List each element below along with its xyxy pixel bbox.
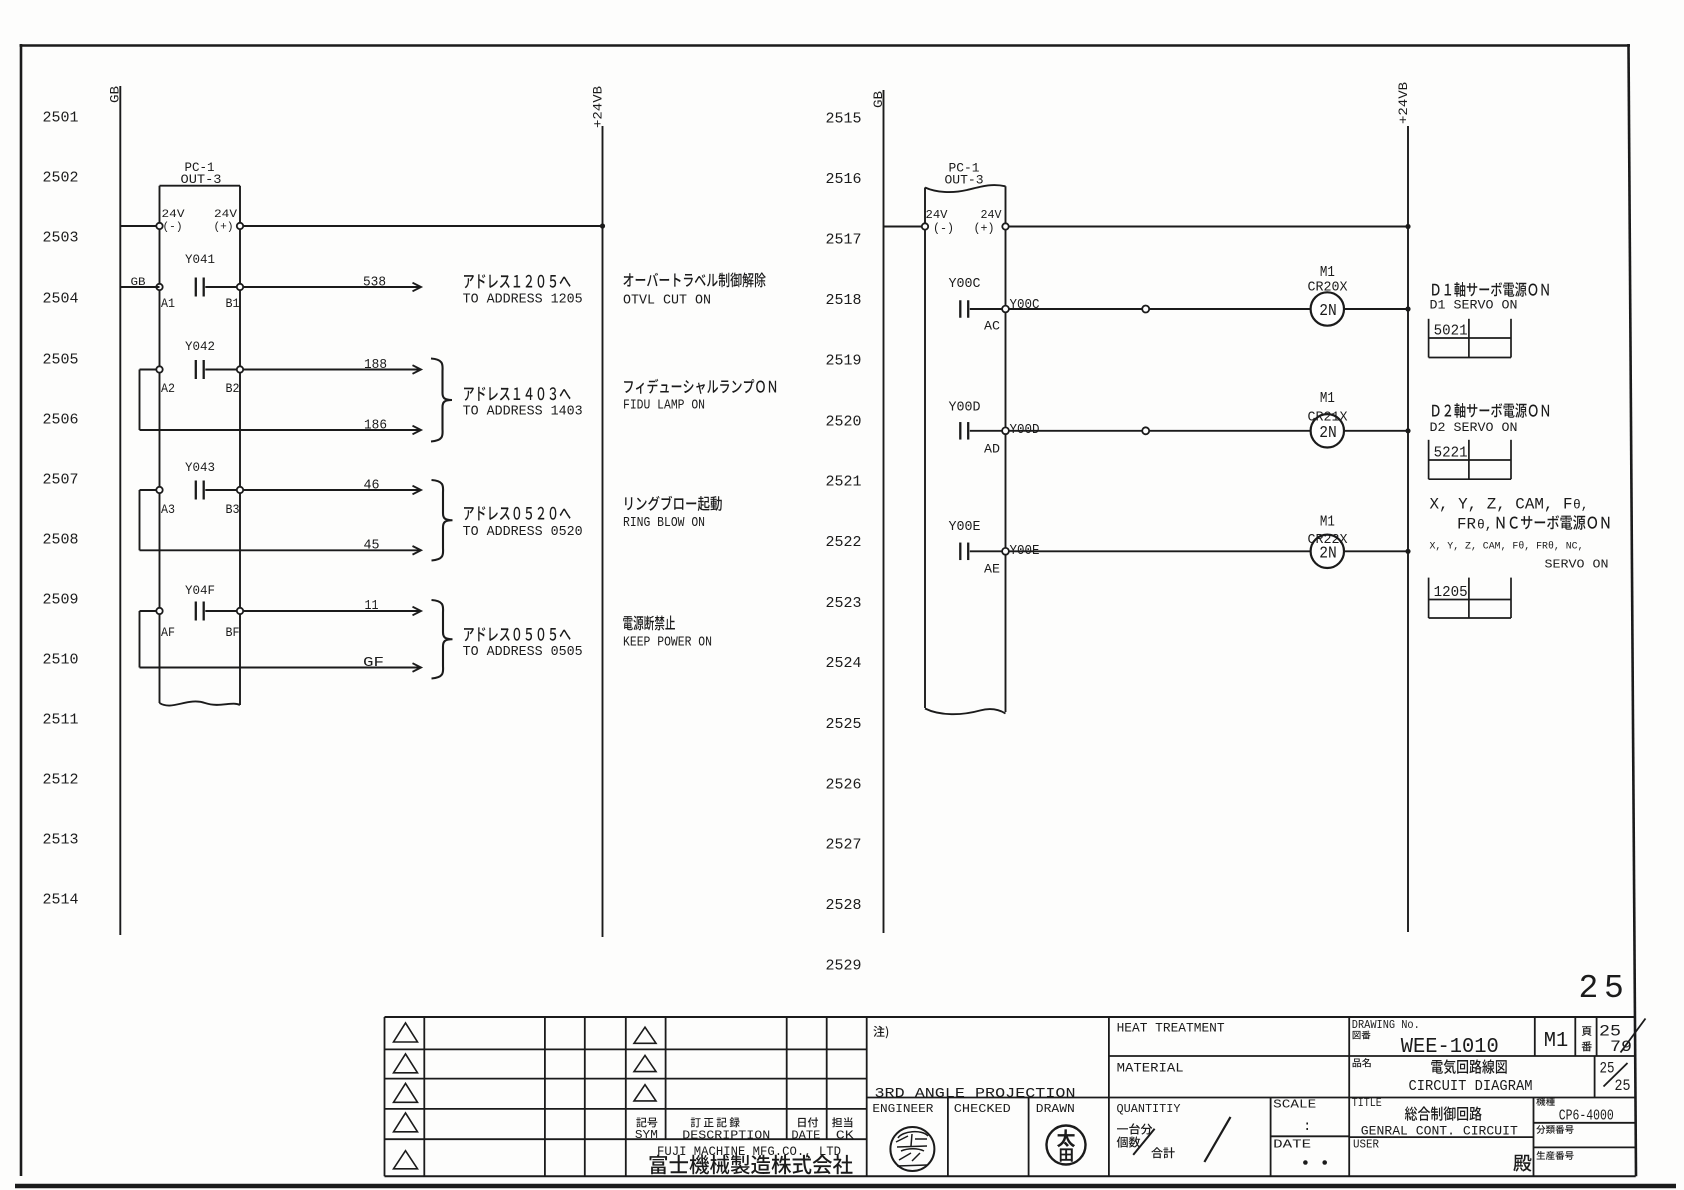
svg-text:2506: 2506: [43, 412, 79, 429]
svg-text:+24VB: +24VB: [1396, 82, 1411, 124]
svg-text:2507: 2507: [43, 472, 79, 489]
svg-text:GB: GB: [131, 277, 146, 289]
svg-text:2518: 2518: [826, 292, 862, 309]
svg-text:Y00C: Y00C: [949, 276, 981, 292]
svg-text:DATE: DATE: [1273, 1138, 1311, 1152]
svg-text:3RD ANGLE PROJECTION: 3RD ANGLE PROJECTION: [875, 1087, 1076, 1102]
svg-text:2512: 2512: [43, 772, 79, 789]
svg-text:A1: A1: [161, 296, 175, 311]
svg-text:2529: 2529: [826, 958, 862, 975]
svg-text:A2: A2: [161, 381, 175, 396]
svg-text:1205: 1205: [1434, 584, 1468, 601]
svg-text:AE: AE: [984, 562, 1000, 577]
svg-text:Y00E: Y00E: [949, 519, 981, 535]
svg-text:OUT-3: OUT-3: [945, 173, 984, 188]
svg-text:GB: GB: [871, 91, 886, 108]
svg-text:2511: 2511: [43, 712, 79, 729]
svg-text:Y00C: Y00C: [1010, 297, 1040, 313]
svg-text:24V: 24V: [981, 208, 1003, 222]
svg-text:2523: 2523: [826, 595, 862, 612]
svg-text:TO ADDRESS 1403: TO ADDRESS 1403: [463, 404, 583, 420]
svg-text:BF: BF: [226, 625, 240, 640]
svg-text:2527: 2527: [826, 837, 862, 854]
svg-text:SYM: SYM: [635, 1129, 658, 1142]
svg-text:46: 46: [364, 477, 380, 493]
svg-text:2502: 2502: [43, 170, 79, 187]
svg-text:B3: B3: [226, 502, 240, 517]
svg-text:OTVL CUT ON: OTVL CUT ON: [623, 293, 711, 309]
svg-text:KEEP POWER ON: KEEP POWER ON: [623, 635, 712, 651]
svg-text:M1: M1: [1320, 514, 1335, 531]
svg-text:2504: 2504: [43, 291, 79, 308]
svg-text:DESCRIPTION: DESCRIPTION: [682, 1130, 770, 1143]
svg-text:2528: 2528: [826, 897, 862, 914]
svg-text:2526: 2526: [826, 776, 862, 793]
svg-text:2503: 2503: [43, 230, 79, 247]
svg-text:CK: CK: [836, 1130, 854, 1143]
svg-text:186: 186: [364, 418, 387, 434]
svg-text:CR22X: CR22X: [1308, 532, 1349, 548]
svg-text:TO ADDRESS 0505: TO ADDRESS 0505: [463, 644, 583, 660]
svg-text:TO ADDRESS 0520: TO ADDRESS 0520: [463, 524, 583, 540]
svg-text:5021: 5021: [1434, 323, 1468, 340]
svg-text:M1: M1: [1320, 264, 1335, 281]
svg-text:AD: AD: [984, 442, 1000, 457]
svg-text:X, Y, Z, CAM, F: X, Y, Z, CAM, F: [1430, 496, 1573, 514]
svg-text:RING BLOW ON: RING BLOW ON: [623, 515, 705, 531]
svg-text:B2: B2: [226, 381, 240, 396]
svg-text:CR21X: CR21X: [1308, 410, 1349, 426]
svg-text:A3: A3: [161, 502, 175, 517]
svg-text:25: 25: [1600, 1060, 1615, 1078]
svg-text:AC: AC: [984, 319, 1000, 334]
svg-text:2525: 2525: [826, 716, 862, 733]
svg-text:M1: M1: [1544, 1030, 1569, 1053]
svg-text::: :: [1303, 1119, 1311, 1135]
svg-text:2522: 2522: [826, 534, 862, 551]
svg-text:USER: USER: [1353, 1138, 1379, 1152]
svg-text:B1: B1: [226, 296, 240, 311]
svg-text:2521: 2521: [826, 474, 862, 491]
svg-text:ENGINEER: ENGINEER: [872, 1102, 933, 1116]
svg-text:AF: AF: [161, 625, 175, 640]
svg-text:188: 188: [364, 357, 387, 373]
svg-text:2516: 2516: [826, 171, 862, 188]
svg-text:SERVO ON: SERVO ON: [1545, 558, 1609, 572]
svg-text:θ,: θ,: [1477, 518, 1493, 533]
svg-text:Y04F: Y04F: [185, 583, 215, 598]
svg-text:11: 11: [365, 598, 379, 614]
svg-text:2515: 2515: [826, 111, 862, 128]
svg-text:2: 2: [1579, 970, 1599, 1007]
svg-text:QUANTITIY: QUANTITIY: [1117, 1102, 1181, 1116]
svg-text:2520: 2520: [826, 413, 862, 430]
svg-text:2514: 2514: [43, 892, 79, 909]
svg-text:CR20X: CR20X: [1308, 280, 1349, 296]
svg-text:FIDU LAMP ON: FIDU LAMP ON: [623, 398, 705, 414]
svg-text:2517: 2517: [826, 232, 862, 249]
svg-text:HEAT TREATMENT: HEAT TREATMENT: [1117, 1022, 1225, 1036]
svg-text:538: 538: [363, 275, 386, 291]
svg-text:DRAWN: DRAWN: [1036, 1102, 1075, 1116]
svg-text:(-): (-): [933, 222, 954, 236]
svg-text:2524: 2524: [826, 655, 862, 672]
svg-text:CHECKED: CHECKED: [954, 1102, 1011, 1116]
svg-text:Y043: Y043: [185, 460, 215, 475]
svg-text:Y042: Y042: [185, 339, 215, 354]
svg-text:2505: 2505: [43, 352, 79, 369]
svg-text:24V: 24V: [926, 208, 949, 222]
svg-text:GF: GF: [363, 655, 384, 671]
svg-text:Y041: Y041: [185, 252, 215, 267]
svg-text:CP6-4000: CP6-4000: [1559, 1108, 1614, 1125]
svg-text:X, Y, Z, CAM, Fθ, FRθ, NC,: X, Y, Z, CAM, Fθ, FRθ, NC,: [1430, 541, 1584, 553]
svg-text:2N: 2N: [1319, 302, 1337, 321]
svg-text:GENRAL CONT. CIRCUIT: GENRAL CONT. CIRCUIT: [1361, 1124, 1518, 1139]
svg-text:Y00D: Y00D: [1010, 422, 1040, 438]
svg-text:DATE: DATE: [791, 1130, 820, 1143]
svg-text:CIRCUIT DIAGRAM: CIRCUIT DIAGRAM: [1409, 1078, 1533, 1095]
svg-text:DRAWING No.: DRAWING No.: [1352, 1019, 1420, 1032]
svg-text:M1: M1: [1320, 390, 1335, 407]
svg-text:45: 45: [364, 538, 380, 554]
svg-text:(+): (+): [214, 222, 234, 234]
svg-text:25: 25: [1615, 1077, 1631, 1095]
svg-text:WEE-1010: WEE-1010: [1401, 1036, 1499, 1059]
svg-text:2513: 2513: [43, 832, 79, 849]
svg-text:OUT-3: OUT-3: [181, 172, 222, 187]
svg-text:24V: 24V: [162, 209, 185, 221]
svg-text:Y00D: Y00D: [949, 400, 981, 416]
svg-text:24V: 24V: [214, 209, 237, 221]
svg-text:2N: 2N: [1319, 424, 1337, 443]
svg-text:SCALE: SCALE: [1273, 1098, 1316, 1112]
svg-text:2510: 2510: [43, 652, 79, 669]
svg-text:2509: 2509: [43, 592, 79, 609]
svg-text:2508: 2508: [43, 532, 79, 549]
svg-text:θ,: θ,: [1573, 498, 1589, 513]
svg-text:MATERIAL: MATERIAL: [1117, 1062, 1184, 1076]
svg-text:5221: 5221: [1434, 445, 1468, 462]
svg-text:TO ADDRESS 1205: TO ADDRESS 1205: [463, 292, 583, 308]
svg-text:5: 5: [1604, 970, 1624, 1007]
svg-text:+24VB: +24VB: [591, 86, 606, 128]
svg-text:Y00E: Y00E: [1010, 543, 1040, 559]
svg-text:FR: FR: [1457, 516, 1476, 534]
svg-text:(-): (-): [163, 222, 183, 234]
svg-text:FUJI MACHINE MFG.CO., LTD: FUJI MACHINE MFG.CO., LTD: [657, 1144, 841, 1159]
svg-text:D1 SERVO ON: D1 SERVO ON: [1430, 298, 1518, 313]
svg-text:2519: 2519: [826, 353, 862, 370]
svg-text:GB: GB: [108, 86, 123, 103]
svg-text:D2 SERVO ON: D2 SERVO ON: [1430, 420, 1518, 435]
svg-text:2501: 2501: [43, 110, 79, 127]
svg-text:(+): (+): [974, 222, 995, 236]
svg-text:TITLE: TITLE: [1352, 1096, 1382, 1110]
